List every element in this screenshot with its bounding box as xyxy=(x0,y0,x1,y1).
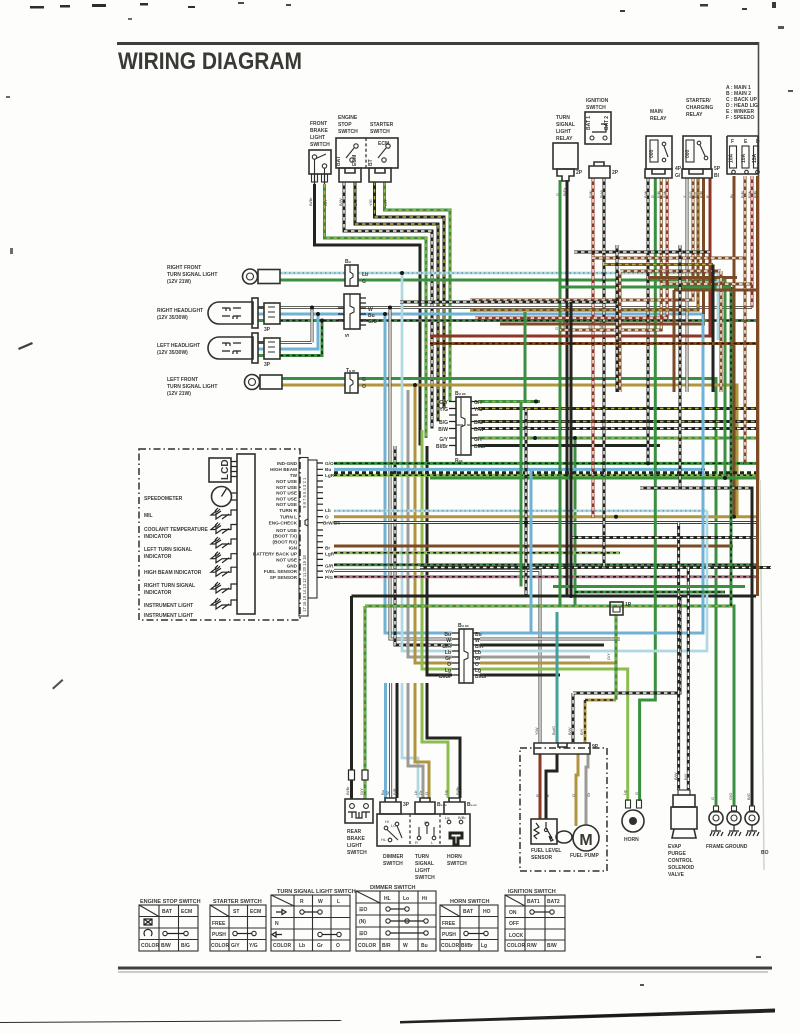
svg-text:GND: GND xyxy=(287,564,298,569)
LED instrument 2 xyxy=(211,598,237,609)
svg-text:INDICATOR: INDICATOR xyxy=(144,554,172,560)
svg-text:B/R: B/R xyxy=(382,943,391,949)
table STARTER SWITCH xyxy=(210,899,266,951)
wire B/W main relay drop xyxy=(646,178,650,465)
wire Lg/R speedometer BATTERY BACK UP row xyxy=(334,551,620,554)
svg-text:(N): (N) xyxy=(359,919,366,925)
wire G/Y rear brake drop xyxy=(362,606,368,799)
svg-text:Bu: Bu xyxy=(325,467,331,472)
svg-text:RELAY: RELAY xyxy=(556,136,573,142)
svg-text:(12V 21W): (12V 21W) xyxy=(167,391,191,397)
svg-text:9P: 9P xyxy=(592,744,599,750)
wire O fuel pump xyxy=(571,754,578,826)
LED high beam xyxy=(211,552,237,563)
wire B/Y evap drop 2 xyxy=(683,568,688,791)
svg-text:PURGE: PURGE xyxy=(668,851,686,857)
svg-text:SWITCH: SWITCH xyxy=(586,105,606,111)
svg-text:Lg: Lg xyxy=(481,943,487,949)
wire O vertical to handlebar connector xyxy=(413,383,452,663)
wire Bl/W ignition drop xyxy=(603,178,606,568)
wire G left front turn signal row xyxy=(282,379,716,807)
lamp RIGHT HEADLIGHT label xyxy=(157,308,203,321)
junction dot ENG-CHECK row xyxy=(524,521,528,525)
wire O left front turn signal row (full width) xyxy=(282,385,737,517)
svg-text:Bl/Br: Bl/Br xyxy=(345,786,350,795)
svg-text:B/Y: B/Y xyxy=(683,773,688,780)
svg-text:F : SPEEDO: F : SPEEDO xyxy=(726,115,754,121)
svg-text:ON: ON xyxy=(509,910,517,916)
relay STARTER/CHARGING RELAY body xyxy=(682,136,721,179)
svg-text:ECM: ECM xyxy=(181,909,192,915)
wire G/Y rear brake row xyxy=(365,606,734,806)
wire Y/W speedometer FUEL SENSOR row xyxy=(334,570,540,743)
svg-text:Hi: Hi xyxy=(422,896,428,902)
svg-text:D: D xyxy=(756,139,760,145)
svg-text:NOT USE: NOT USE xyxy=(276,485,297,490)
table HORN SWITCH xyxy=(440,899,498,951)
svg-text:B/W: B/W xyxy=(474,427,484,433)
svg-text:G/Y: G/Y xyxy=(439,400,448,406)
table IGNITION SWITCH xyxy=(505,889,565,951)
wire R/W ignition drop xyxy=(592,178,595,518)
svg-text:G/R: G/R xyxy=(325,564,334,569)
svg-text:Bu: Bu xyxy=(421,943,428,949)
svg-text:LEFT HEADLIGHT: LEFT HEADLIGHT xyxy=(157,343,200,349)
wire Lg handlebar row right to horn xyxy=(480,669,628,801)
switch HORN SWITCH label xyxy=(447,854,467,867)
wire G right front turn signal row xyxy=(280,280,725,478)
svg-text:Y/G: Y/G xyxy=(249,943,258,949)
svg-text:G/Y: G/Y xyxy=(474,437,483,443)
svg-text:(12V 35/30W): (12V 35/30W) xyxy=(157,350,188,356)
svg-text:(BOOT TX): (BOOT TX) xyxy=(273,534,297,539)
indicator label RIGHT TURN SIGNAL INDICATOR xyxy=(144,583,195,596)
wire R/Br upper mesh row 7 xyxy=(674,290,758,392)
svg-text:SPEEDOMETER: SPEEDOMETER xyxy=(144,496,183,502)
svg-text:R/Bl: R/Bl xyxy=(657,191,661,198)
svg-text:BT: BT xyxy=(368,159,374,166)
svg-text:TURN L: TURN L xyxy=(280,515,297,520)
svg-text:PUSH: PUSH xyxy=(442,932,456,938)
svg-text:FREE: FREE xyxy=(442,921,456,927)
LED left turn xyxy=(211,537,237,548)
switch FRONT BRAKE LIGHT SWITCH body xyxy=(309,150,331,182)
junction dot rear brake row xyxy=(569,594,573,598)
turn signal Gr drop xyxy=(408,683,423,798)
wire Bu speedometer HIGH BEAM row xyxy=(334,467,705,471)
horn switch contacts xyxy=(447,820,451,824)
svg-text:ENGINE STOP SWITCH: ENGINE STOP SWITCH xyxy=(140,899,201,905)
svg-text:R: R xyxy=(535,794,540,797)
svg-text:TURN SIGNAL LIGHT: TURN SIGNAL LIGHT xyxy=(167,384,217,390)
svg-text:Y/W: Y/W xyxy=(325,569,334,574)
svg-text:Lg: Lg xyxy=(443,791,448,795)
svg-text:Y/G: Y/G xyxy=(474,407,483,413)
wire B/G frame ground 3 xyxy=(640,488,752,806)
svg-text:17 16 15 14 13 12 11 20 19 18: 17 16 15 14 13 12 11 20 19 18 xyxy=(302,555,307,612)
wire Bl/Br rear brake drop xyxy=(349,596,355,799)
lamp LEFT FRONT TURN SIGNAL LIGHT bulb xyxy=(245,375,283,390)
wire W vertical to handlebar connector xyxy=(388,306,452,640)
svg-text:G/: G/ xyxy=(675,173,681,179)
svg-text:O: O xyxy=(325,515,329,520)
wire R/Y upper mesh row 3 xyxy=(604,263,713,266)
wire Bl/Br right of connector Bu-oc xyxy=(478,444,660,447)
svg-text:PUSH: PUSH xyxy=(212,932,226,938)
svg-text:SIGNAL: SIGNAL xyxy=(556,122,575,128)
svg-text:G/Y: G/Y xyxy=(323,199,328,206)
svg-text:BAT: BAT xyxy=(336,156,342,166)
svg-text:Gr: Gr xyxy=(418,790,423,795)
svg-text:Lg: Lg xyxy=(622,791,627,795)
wire B/G engine stop drop + staircase row xyxy=(355,182,438,422)
svg-text:SWITCH: SWITCH xyxy=(338,129,358,135)
svg-text:INSTRUMENT LIGHT: INSTRUMENT LIGHT xyxy=(144,613,193,619)
svg-text:B/W: B/W xyxy=(644,190,648,198)
svg-text:B/Br: B/Br xyxy=(458,815,466,820)
svg-text:B/W: B/W xyxy=(567,727,572,735)
svg-text:Bl/Br: Bl/Br xyxy=(455,786,460,795)
svg-text:SWITCH: SWITCH xyxy=(447,861,467,867)
wire G/O left headlight row + tap xyxy=(258,319,324,356)
svg-text:R/W: R/W xyxy=(527,943,537,949)
switch DIMMER SWITCH label xyxy=(383,854,404,867)
svg-text:SWITCH: SWITCH xyxy=(310,142,330,148)
svg-text:R/Br: R/Br xyxy=(754,190,758,198)
svg-text:ENGINE: ENGINE xyxy=(338,115,358,121)
svg-text:FRAME GROUND: FRAME GROUND xyxy=(706,844,748,850)
svg-text:G: G xyxy=(710,797,715,800)
wire green vertical right 1 xyxy=(724,280,727,478)
svg-text:HORN: HORN xyxy=(447,854,462,860)
svg-text:BAT: BAT xyxy=(463,909,473,915)
svg-text:R/G: R/G xyxy=(689,191,693,198)
svg-text:FUEL LEVEL: FUEL LEVEL xyxy=(531,848,561,854)
svg-text:TW: TW xyxy=(290,473,298,478)
switch TURN SIGNAL LIGHT SWITCH label xyxy=(415,854,435,881)
switch continuity tables xyxy=(139,885,565,951)
svg-text:R/Bl: R/Bl xyxy=(741,191,745,198)
svg-text:G/Y: G/Y xyxy=(231,943,240,949)
svg-text:HIGH BEAM INDICATOR: HIGH BEAM INDICATOR xyxy=(144,570,202,576)
svg-text:B/R: B/R xyxy=(392,788,397,795)
svg-text:COLOR: COLOR xyxy=(211,943,229,949)
svg-text:B/W: B/W xyxy=(438,427,448,433)
svg-text:Bl/W: Bl/W xyxy=(600,190,604,198)
svg-text:B: B xyxy=(545,794,550,797)
svg-text:SWITCH: SWITCH xyxy=(370,129,390,135)
wire R/Bl fuse drop xyxy=(744,176,747,463)
wire Bu/G fuel drop xyxy=(551,612,557,743)
svg-text:Bl/Br: Bl/Br xyxy=(475,674,487,680)
junction dot green row 478 xyxy=(723,476,727,480)
wire B/W right of connector Bu-oc xyxy=(478,427,756,430)
svg-text:NOT USE: NOT USE xyxy=(276,491,297,496)
connector front turn signal R (small) xyxy=(345,259,368,286)
svg-text:W: W xyxy=(318,899,323,905)
LED right turn xyxy=(211,565,237,576)
svg-text:COLOR: COLOR xyxy=(141,943,159,949)
wire Lg vertical to handlebar connector xyxy=(422,430,452,669)
svg-text:G: G xyxy=(362,279,366,285)
svg-text:B/Y: B/Y xyxy=(579,728,584,735)
svg-text:BAT1: BAT1 xyxy=(527,899,540,905)
svg-text:EVAP: EVAP xyxy=(668,844,682,850)
svg-text:P/G: P/G xyxy=(325,575,333,580)
EVAP purge control solenoid valve body xyxy=(671,790,697,838)
svg-text:IND-GND: IND-GND xyxy=(277,461,298,466)
wire R/W main relay drop xyxy=(475,178,667,318)
svg-text:RIGHT TURN SIGNAL: RIGHT TURN SIGNAL xyxy=(144,583,195,589)
wire R/G starter relay drop xyxy=(470,178,693,300)
svg-text:HORN SWITCH: HORN SWITCH xyxy=(450,899,489,905)
svg-text:TURN: TURN xyxy=(556,115,570,121)
wire Bl/W row beside Bu xyxy=(334,471,756,474)
svg-text:Br: Br xyxy=(325,546,330,551)
lamp RIGHT FRONT TURN SIGNAL LIGHT bulb xyxy=(243,269,281,284)
svg-text:O: O xyxy=(362,384,366,390)
wire B/R vertical to handlebar connector xyxy=(395,446,452,645)
wire Bu vertical 531 xyxy=(530,469,533,633)
fuse box body xyxy=(727,136,760,174)
lamp LEFT HEADLIGHT bulb xyxy=(208,333,280,368)
wire W handlebar row right xyxy=(480,637,620,640)
svg-text:(12V 21W): (12V 21W) xyxy=(167,279,191,285)
switch REAR BRAKE LIGHT SWITCH body xyxy=(345,799,373,823)
horn Bl/Br drop xyxy=(427,683,460,798)
wire color labels at meter xyxy=(323,461,340,580)
svg-text:LOCK: LOCK xyxy=(509,933,524,939)
wire Gr vertical to handlebar connector xyxy=(408,390,452,657)
svg-text:G: G xyxy=(634,792,639,795)
svg-text:B/G: B/G xyxy=(181,943,190,949)
wire green vertical right 2 xyxy=(730,287,733,606)
svg-text:COLOR: COLOR xyxy=(441,943,459,949)
svg-text:CHARGING: CHARGING xyxy=(686,105,713,111)
wire Br fuse drop xyxy=(732,176,736,519)
svg-text:NOT USE: NOT USE xyxy=(276,502,297,507)
svg-text:STOP: STOP xyxy=(338,122,352,128)
turn signal Lb drop xyxy=(402,683,418,798)
svg-text:SIGNAL: SIGNAL xyxy=(415,861,434,867)
svg-text:STARTER: STARTER xyxy=(370,122,394,128)
svg-text:G: G xyxy=(556,193,560,196)
svg-text:G/Y: G/Y xyxy=(474,400,483,406)
wire W headlight row xyxy=(258,306,752,309)
svg-text:10A: 10A xyxy=(741,153,747,163)
wire Bl/Br vertical to handlebar connector xyxy=(427,446,452,675)
svg-text:HORN: HORN xyxy=(624,837,639,843)
svg-text:15A: 15A xyxy=(752,153,758,163)
svg-text:TURN SIGNAL LIGHT SWITCH: TURN SIGNAL LIGHT SWITCH xyxy=(277,889,356,895)
switch FRONT BRAKE LIGHT SWITCH label xyxy=(310,121,330,148)
svg-text:R: R xyxy=(706,195,710,198)
svg-text:BRAKE: BRAKE xyxy=(347,836,365,842)
wire R/Bl vertical upper mesh d xyxy=(720,271,723,392)
lamp RIGHT HEADLIGHT bulb xyxy=(208,298,280,333)
wire green row right mid 1 xyxy=(560,286,731,289)
svg-text:IGNITION: IGNITION xyxy=(586,98,609,104)
svg-text:M: M xyxy=(579,832,592,849)
wire Y starter relay drop xyxy=(685,178,688,392)
connector dimmer 3P xyxy=(380,798,410,814)
page right edge line xyxy=(758,42,760,480)
wire B/W fuel drop xyxy=(567,596,680,743)
connector front turn signal L (small) xyxy=(345,368,366,393)
fuel unit dashed enclosure xyxy=(520,748,607,871)
meter pin function labels xyxy=(253,461,298,580)
dimmer B/R drop xyxy=(392,683,397,798)
wire Bl vertical upper mesh b xyxy=(679,245,682,488)
relay MAIN RELAY label xyxy=(650,109,667,122)
svg-text:O: O xyxy=(424,792,429,795)
wire O handlebar row right to 1P xyxy=(480,615,616,663)
wire R/Br fuse drop xyxy=(756,176,759,596)
wire Y/G right of connector Bu-oc xyxy=(478,407,756,410)
connector 1P (G/Y mid right) xyxy=(610,602,632,615)
wire B/G right of connector Bu-oc xyxy=(478,420,756,423)
wire Bl/Br handlebar row right xyxy=(480,674,560,677)
svg-text:LEFT TURN SIGNAL: LEFT TURN SIGNAL xyxy=(144,547,192,553)
LED MIL xyxy=(211,508,237,519)
svg-text:G: G xyxy=(651,195,655,198)
svg-text:Lb: Lb xyxy=(299,943,305,949)
relay STARTER/CHARGING RELAY label xyxy=(686,98,713,118)
indicator label COOLANT TEMPERATURE INDICATOR xyxy=(144,527,208,540)
wire cyan row 287 xyxy=(717,273,720,340)
svg-text:BrW/Bk: BrW/Bk xyxy=(323,521,340,526)
svg-text:NOT USE: NOT USE xyxy=(276,479,297,484)
wire B/Y fuel drop xyxy=(579,700,616,743)
switch IGNITION SWITCH label xyxy=(586,98,609,111)
svg-text:B/W: B/W xyxy=(673,772,678,780)
svg-text:B/G: B/G xyxy=(439,420,448,426)
wire R/Y starter relay drop xyxy=(470,178,698,310)
horn Lg drop xyxy=(422,683,448,798)
wire Br speedometer IGN row xyxy=(334,545,733,548)
svg-text:Y/W: Y/W xyxy=(534,727,539,735)
wire G/Y front brake drop + staircase row xyxy=(325,184,427,438)
LED symbols column xyxy=(211,508,237,609)
svg-text:ECM: ECM xyxy=(352,155,358,166)
svg-text:L: L xyxy=(337,899,340,905)
svg-text:B/G: B/G xyxy=(353,199,358,206)
svg-text:R/Bl: R/Bl xyxy=(700,191,704,198)
svg-text:SENSOR: SENSOR xyxy=(531,855,553,861)
wire O speedometer TURN L row xyxy=(334,515,756,518)
fuse D 15A xyxy=(754,146,759,168)
svg-text:3P: 3P xyxy=(264,327,271,333)
svg-text:G: G xyxy=(362,377,366,383)
svg-text:TURN R: TURN R xyxy=(279,508,297,513)
svg-text:BAT: BAT xyxy=(162,909,172,915)
svg-text:000: 000 xyxy=(685,149,691,158)
table TURN SIGNAL LIGHT SWITCH xyxy=(271,889,356,951)
svg-text:9 8 7 6 5 4 3 2 1: 9 8 7 6 5 4 3 2 1 xyxy=(302,477,307,508)
svg-text:OFF: OFF xyxy=(509,921,519,927)
svg-text:☰O: ☰O xyxy=(359,907,367,913)
svg-text:G/Y: G/Y xyxy=(383,199,388,206)
wire R/Bl upper mesh row 4 xyxy=(620,271,721,392)
svg-text:2P: 2P xyxy=(576,170,583,176)
svg-text:DIMMER SWITCH: DIMMER SWITCH xyxy=(370,885,416,891)
svg-text:G/Y: G/Y xyxy=(359,788,364,795)
svg-text:Lo: Lo xyxy=(403,896,409,902)
dimmer Bu drop xyxy=(380,683,386,798)
indicator label LEFT TURN SIGNAL INDICATOR xyxy=(144,547,192,560)
svg-text:HO: HO xyxy=(483,909,491,915)
handlebar switch housing box xyxy=(377,814,470,846)
svg-text:G/Y: G/Y xyxy=(439,437,448,443)
svg-text:1P: 1P xyxy=(625,602,632,608)
svg-text:Y/G: Y/G xyxy=(368,199,373,206)
svg-text:TURN SIGNAL LIGHT: TURN SIGNAL LIGHT xyxy=(167,272,217,278)
frame ground terminal 2 xyxy=(727,806,741,836)
svg-text:G/O: G/O xyxy=(728,793,733,800)
svg-text:SP SENSOR: SP SENSOR xyxy=(270,575,298,580)
wire Gr fuel pump xyxy=(586,754,591,825)
svg-text:F: F xyxy=(731,139,734,145)
svg-text:000: 000 xyxy=(649,149,655,158)
wire G/O headlight row xyxy=(258,319,756,322)
svg-text:(12V 35/30W): (12V 35/30W) xyxy=(157,315,188,321)
fuel level sensor body xyxy=(531,819,557,844)
wire G row 586 xyxy=(553,585,745,588)
wire Bl row 537 xyxy=(571,536,756,539)
wire R/Bl main relay drop xyxy=(560,178,661,330)
svg-text:Y/G: Y/G xyxy=(439,407,448,413)
svg-text:FREE: FREE xyxy=(212,921,226,927)
relay MAIN RELAY body xyxy=(645,136,682,179)
wire B fuel sensor xyxy=(545,754,557,819)
wire R starter relay drop xyxy=(430,178,710,336)
svg-text:R/W: R/W xyxy=(589,190,593,198)
svg-text:Gr: Gr xyxy=(586,792,591,797)
svg-text:R: R xyxy=(415,840,418,845)
svg-text:INSTRUMENT LIGHT: INSTRUMENT LIGHT xyxy=(144,603,193,609)
LCD display xyxy=(209,458,237,482)
fuel pump float oval xyxy=(556,831,572,843)
svg-text:BATTERY BACK UP: BATTERY BACK UP xyxy=(253,552,297,557)
title rule xyxy=(117,42,758,45)
wire B/W evap drop 1 xyxy=(673,523,679,791)
svg-text:RIGHT FRONT: RIGHT FRONT xyxy=(167,265,201,271)
svg-text:Lg: Lg xyxy=(445,815,449,820)
meter connector 20P xyxy=(299,458,323,617)
wire Br row 343 full xyxy=(430,342,758,345)
svg-text:Bl/Br: Bl/Br xyxy=(436,444,448,450)
svg-text:R/W: R/W xyxy=(748,190,752,198)
harness connectors xyxy=(338,259,632,683)
svg-text:WIRING DIAGRAM: WIRING DIAGRAM xyxy=(118,48,302,75)
svg-text:CONTROL: CONTROL xyxy=(668,858,693,864)
connector Bu-oc (headlight harness) xyxy=(436,391,486,455)
svg-text:LgR: LgR xyxy=(325,552,335,557)
svg-text:5P: 5P xyxy=(714,166,721,172)
svg-text:NOT USE: NOT USE xyxy=(276,528,297,533)
connector headlight S (9P) xyxy=(338,294,377,337)
wire B/W engine stop drop + staircase row xyxy=(344,182,432,429)
connector turn signal switch xyxy=(415,798,447,814)
meter circuit board xyxy=(237,454,255,614)
wire Bl vertical 526 xyxy=(525,409,528,597)
wire G vertical 521 xyxy=(520,402,523,587)
svg-text:B/G: B/G xyxy=(474,420,483,426)
dimmer W drop xyxy=(385,683,391,798)
scan page bottom dark skewed line xyxy=(0,1020,342,1023)
svg-text:HIGH BEAM: HIGH BEAM xyxy=(270,467,297,472)
svg-text:FUEL PUMP: FUEL PUMP xyxy=(570,853,599,859)
